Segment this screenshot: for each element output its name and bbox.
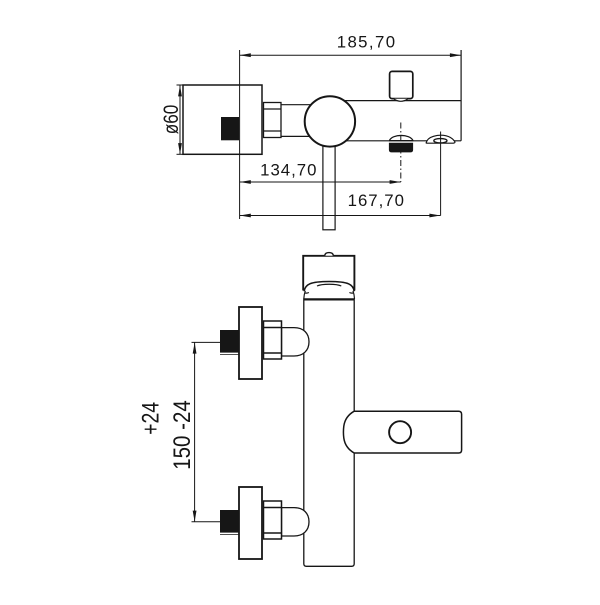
cartridge dome outer arc <box>304 282 354 292</box>
body bar (spout body, side view) <box>340 101 461 141</box>
upper union: escutcheon plate <box>239 307 262 379</box>
lower union: supply stub (black) <box>220 510 239 535</box>
body top edge (thick) <box>304 298 354 300</box>
bar bottom line through dome <box>389 140 413 142</box>
hose bracket (top view) <box>343 411 461 453</box>
control knob circle <box>305 96 355 146</box>
dimension 134,70 line <box>240 181 401 183</box>
cartridge dome inner edge arc <box>317 284 341 286</box>
bell right side <box>353 291 355 299</box>
aerator dome (above bar bottom line) <box>390 135 413 140</box>
lower union: nut <box>264 501 282 539</box>
dimension 150 extension line lower <box>192 521 221 523</box>
supply pipe stub (black) <box>221 117 239 140</box>
dimension 167,70 arrows <box>240 214 441 218</box>
connecting pipe between nut and body <box>281 105 318 137</box>
dimension 150 extension line upper <box>192 341 221 343</box>
hose outlet inner opening <box>434 139 447 143</box>
center line of aerator (dash-dot) <box>400 123 402 183</box>
lower union: escutcheon plate <box>239 487 262 559</box>
dimension 167,70 line <box>240 215 441 217</box>
bell left side <box>304 291 306 299</box>
svg-text:+24: +24 <box>138 402 165 435</box>
dimension 134,70 arrows <box>240 180 401 184</box>
svg-text:185,70: 185,70 <box>337 33 397 52</box>
extension line left (wall face) <box>239 50 241 219</box>
handle pin bump <box>325 253 334 256</box>
svg-text:167,70: 167,70 <box>348 191 405 210</box>
dome right curl <box>349 292 353 295</box>
lower union: capsule elbow <box>282 508 310 536</box>
dimension o60 line <box>179 85 181 154</box>
hose bracket hole <box>389 421 411 443</box>
dimension 150 arrows <box>193 343 197 522</box>
extension line right / spout end edge <box>460 50 462 141</box>
upper union: stub slit <box>220 352 239 354</box>
diverter neck arc <box>394 99 409 102</box>
dimension 185,70 line <box>240 54 462 56</box>
lower union: stub slit <box>220 532 239 534</box>
wall block + escutcheon plate (side view) <box>183 85 262 154</box>
upper union: supply stub (black) <box>220 330 239 355</box>
svg-text:150 -24: 150 -24 <box>169 400 196 470</box>
hose outlet (side view wave shape) <box>426 135 455 143</box>
svg-text:ø60: ø60 <box>160 105 183 135</box>
aerator knurled band (black) <box>389 143 413 153</box>
diverter cylinder on top <box>390 71 413 98</box>
upper union: nut <box>264 321 282 359</box>
dome left curl <box>305 292 309 295</box>
handle rod <box>323 140 335 230</box>
body column (front bar) <box>304 299 354 566</box>
dimension o60 extension ticks <box>177 85 184 154</box>
svg-text:134,70: 134,70 <box>260 161 317 180</box>
union nut S (side view) <box>264 103 282 138</box>
upper union: capsule elbow <box>282 328 310 356</box>
dimension 150 line <box>194 342 196 521</box>
dimension 185,70 arrows <box>240 53 461 57</box>
center line of hose outlet <box>440 132 442 216</box>
handle body (rectangle) <box>303 256 354 291</box>
dimension o60 arrows <box>178 85 182 154</box>
